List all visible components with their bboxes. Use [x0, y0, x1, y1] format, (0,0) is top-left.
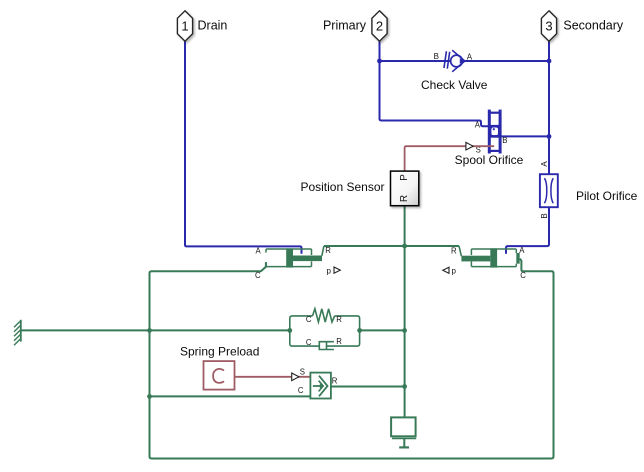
node: spring-damper right	[357, 328, 362, 333]
spring-damper bracket top (spring branch with zigzag)	[290, 309, 360, 350]
wire: preload R to center vertical	[331, 386, 405, 388]
svg-text:B: B	[502, 136, 507, 145]
svg-text:B: B	[434, 52, 439, 61]
wire: junction to spring-damper left node	[150, 329, 290, 331]
svg-text:Spool Orifice: Spool Orifice	[455, 153, 524, 167]
port 2 hexagon	[372, 11, 387, 41]
svg-text:P: P	[399, 174, 410, 181]
node: spring-damper left	[287, 328, 292, 333]
wire: wall to left vertical junction	[21, 329, 150, 331]
pilot orifice U2 symbol	[540, 174, 558, 207]
svg-text:A: A	[475, 121, 481, 130]
svg-text:Position Sensor: Position Sensor	[300, 180, 384, 194]
node: junction spool B / secondary line	[547, 134, 552, 139]
svg-text:R: R	[325, 246, 331, 255]
svg-text:A: A	[467, 52, 473, 61]
port 1 hexagon	[177, 11, 192, 41]
wire: left vertical junction to preload C	[150, 395, 312, 397]
wire: Pilot Orifice port B down and left to right actuator port A	[506, 208, 549, 254]
node: wall line / left vertical	[147, 328, 152, 333]
svg-text:C: C	[255, 271, 261, 280]
svg-text:Primary: Primary	[323, 19, 367, 33]
svg-text:R: R	[336, 337, 342, 346]
node: junction port2/check line	[377, 59, 382, 64]
right actuator piston	[490, 248, 497, 267]
wire: position sensor R down to main mechanical line (green)	[404, 206, 406, 246]
wire: big case loop, right actuator C around bottom to left actuator C	[150, 259, 554, 459]
svg-text:C: C	[520, 271, 526, 280]
svg-text:3: 3	[545, 18, 552, 33]
right actuator rod	[461, 256, 490, 262]
svg-text:Check Valve: Check Valve	[421, 78, 488, 92]
port 3 hexagon	[541, 11, 556, 41]
svg-text:C: C	[298, 386, 304, 395]
mass block	[391, 417, 416, 447]
right actuator annotation <p	[443, 267, 449, 273]
node: preload R / center vertical	[402, 384, 407, 389]
wire: check valve line from node at port 2 to node at port 3	[380, 60, 550, 62]
svg-text:2: 2	[376, 18, 383, 33]
svg-text:B: B	[540, 213, 549, 218]
svg-text:A: A	[519, 246, 525, 255]
svg-text:R: R	[336, 315, 342, 324]
wire: Spool Orifice port B to secondary line	[500, 135, 549, 137]
svg-text:Drain: Drain	[198, 19, 228, 33]
node: junction port3/check line	[547, 59, 552, 64]
svg-text:A: A	[540, 161, 549, 167]
wire: physical signal, position sensor P to spool orifice S (dark red)	[405, 146, 495, 171]
right valve actuator body	[471, 249, 516, 267]
node: preload C / left vertical	[147, 394, 152, 399]
svg-text:A: A	[256, 247, 262, 256]
wire: center vertical mechanical line to mass	[404, 246, 406, 417]
svg-text:C: C	[306, 338, 312, 347]
wire: port 1 Drain to left actuator port A (blue hydraulic)	[185, 42, 302, 254]
left valve actuator body	[266, 249, 312, 267]
wire: spring-damper right node to center vertical	[360, 329, 405, 331]
svg-text:S: S	[300, 368, 305, 377]
svg-text:Spring Preload: Spring Preload	[180, 344, 259, 358]
wire: port 3 Secondary down to Pilot Orifice port A	[548, 42, 550, 174]
mechanical reference wall	[14, 320, 21, 346]
svg-text:Secondary: Secondary	[563, 19, 624, 33]
signal arrowhead into spool orifice S	[466, 142, 473, 150]
svg-text:R: R	[332, 376, 338, 385]
right actuator knob	[516, 253, 519, 264]
check valve CV1 symbol	[444, 50, 465, 72]
left actuator piston	[286, 248, 293, 267]
svg-text:p: p	[327, 266, 332, 275]
damper branch	[290, 330, 320, 346]
left actuator rod link to R	[322, 246, 324, 256]
left actuator rod	[293, 256, 322, 262]
wire: physical signal, constant C to spring preload S (dark red)	[234, 376, 310, 378]
svg-text:1: 1	[181, 18, 188, 33]
spring preload force source block	[310, 373, 331, 399]
constant block C (spring preload value)	[204, 361, 235, 390]
svg-text:p: p	[452, 267, 457, 276]
svg-text:Pilot Orifice: Pilot Orifice	[576, 189, 638, 203]
node: wall line / center vertical	[402, 328, 407, 333]
svg-text:C: C	[306, 315, 312, 324]
right actuator rod link to R	[459, 246, 461, 256]
node: sensor R / rods junction	[402, 244, 407, 249]
wire: port 2 Primary down to Spool Orifice port A	[380, 42, 490, 127]
spool orifice U1 symbol	[488, 110, 500, 154]
svg-text:R: R	[451, 246, 457, 255]
wire: main horizontal mechanical line between actuator rods	[324, 245, 459, 247]
position sensor block	[391, 171, 419, 206]
svg-text:R: R	[399, 195, 410, 202]
signal arrowhead into preload S	[292, 373, 299, 381]
